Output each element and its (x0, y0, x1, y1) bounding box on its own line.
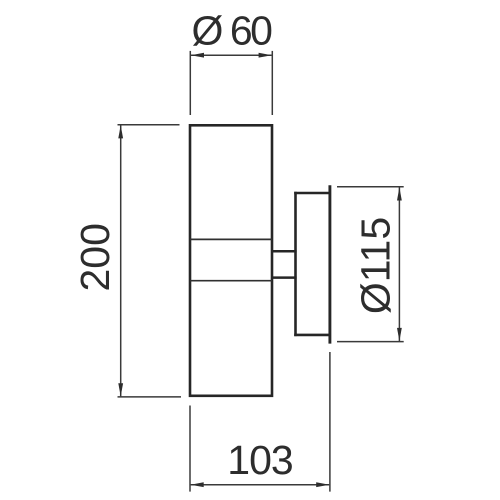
dimension 103: left extension line (189, 406, 191, 492)
svg-text:Ø115: Ø115 (353, 217, 399, 314)
dimension Ø115: bottom arrowhead (397, 328, 402, 341)
svg-text:Ø 60: Ø 60 (192, 8, 273, 54)
wall plate left edge (294, 192, 297, 336)
connector arm bottom line (272, 276, 297, 279)
lamp body outline (190, 125, 272, 396)
body middle band lower line (190, 280, 272, 282)
wall plate right edge (mounting face) (328, 185, 331, 343)
wall plate bottom edge (294, 334, 330, 337)
svg-text:200: 200 (72, 223, 118, 291)
dimension 103: dimension line (191, 484, 330, 486)
dimension Ø60: right extension line (271, 51, 273, 115)
dimension Ø115: bottom extension line (337, 341, 404, 343)
dimension Ø60: right arrowhead (259, 53, 272, 58)
dimension Ø60: left extension line (189, 51, 191, 115)
dimension Ø115: dimension line (398, 187, 400, 341)
connector arm top line (272, 250, 297, 253)
dimension 200: bottom arrowhead (118, 383, 123, 396)
svg-text:103: 103 (227, 437, 292, 483)
dimension 200: top arrowhead (118, 125, 123, 138)
dimension 103: left arrowhead (191, 482, 204, 487)
dimension Ø115: top arrowhead (397, 187, 402, 200)
dimension Ø60: left arrowhead (191, 53, 204, 58)
dimension Ø115: top extension line (337, 186, 404, 188)
dimension 200: bottom extension line (118, 396, 182, 398)
dimension 103: right extension line (329, 352, 331, 492)
body middle band upper line (190, 238, 272, 240)
dimension Ø60: dimension line (191, 54, 272, 56)
dimension 200: top extension line (118, 124, 180, 126)
dimension 200: dimension line (120, 125, 122, 396)
wall plate top edge (294, 192, 330, 195)
dimension 103: right arrowhead (316, 482, 329, 487)
